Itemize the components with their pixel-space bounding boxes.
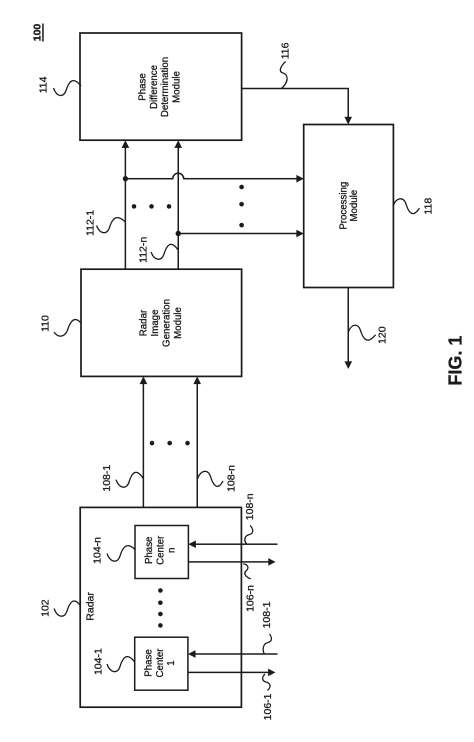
box U102 Radar bbox=[80, 507, 241, 707]
ellipsis dots between branch wires bbox=[239, 185, 244, 228]
svg-text:100: 100 bbox=[32, 24, 44, 42]
wire 120 output of processing module bbox=[345, 288, 353, 370]
lead line squiggle for 108-n bbox=[197, 471, 223, 486]
svg-text:Module: Module bbox=[349, 190, 360, 222]
svg-text:102: 102 bbox=[39, 599, 51, 617]
lead line squiggle for 112-n bbox=[151, 244, 178, 259]
lead line squiggle for 106-n bbox=[243, 564, 251, 579]
svg-text:Radar: Radar bbox=[85, 592, 97, 621]
wire 108-1 input into phase center 1 bbox=[188, 650, 278, 658]
svg-text:112-1: 112-1 bbox=[84, 210, 96, 236]
wire 112-n from radar image module to phase difference module bbox=[174, 140, 182, 269]
ellipsis dots between phase centers bbox=[158, 588, 163, 628]
ellipsis dots between 108 wires bbox=[150, 441, 190, 446]
svg-text:108-1: 108-1 bbox=[261, 601, 273, 628]
box U104-n Phase Center n bbox=[135, 526, 188, 579]
svg-text:Determination: Determination bbox=[160, 57, 171, 117]
lead line squiggle for 120 bbox=[348, 325, 375, 340]
wire 106-n output of phase center n bbox=[188, 558, 275, 566]
svg-text:Phase: Phase bbox=[144, 537, 155, 564]
lead line squiggle for 108-1 bbox=[116, 472, 143, 487]
wire 116 from phase difference module to processing module bbox=[242, 89, 352, 125]
lead line squiggle for 104-1 bbox=[107, 657, 135, 672]
svg-text:104-1: 104-1 bbox=[93, 648, 105, 675]
svg-text:104-n: 104-n bbox=[92, 537, 104, 564]
svg-text:110: 110 bbox=[40, 315, 52, 332]
wire 108-n from radar to radar image module bbox=[193, 376, 201, 507]
svg-text:106-n: 106-n bbox=[244, 585, 256, 612]
svg-text:Difference: Difference bbox=[149, 65, 160, 109]
svg-text:116: 116 bbox=[280, 42, 292, 59]
lead line squiggle for input 108-1 bbox=[263, 634, 271, 654]
lead line squiggle for 114 bbox=[54, 81, 82, 96]
svg-text:Center: Center bbox=[155, 648, 166, 678]
lead line squiggle for 104-n bbox=[107, 546, 135, 562]
junction dot on wire 112-1 bbox=[123, 176, 128, 181]
box U110 Radar Image Generation Module bbox=[81, 269, 242, 376]
ellipsis dots between 112 wires bbox=[132, 204, 172, 209]
svg-text:Module: Module bbox=[173, 307, 184, 339]
lead line squiggle for 112-1 bbox=[97, 218, 126, 233]
wire 108-n input into phase center n bbox=[188, 540, 277, 548]
svg-text:108-1: 108-1 bbox=[101, 465, 113, 492]
svg-text:FIG. 1: FIG. 1 bbox=[445, 336, 465, 386]
svg-text:Processing: Processing bbox=[338, 182, 349, 230]
svg-text:Module: Module bbox=[171, 71, 182, 103]
svg-text:108-n: 108-n bbox=[226, 465, 238, 492]
svg-text:n: n bbox=[167, 548, 178, 553]
svg-text:114: 114 bbox=[37, 76, 49, 93]
svg-text:118: 118 bbox=[422, 198, 434, 215]
wire 106-1 output of phase center 1 bbox=[188, 669, 275, 677]
lead line squiggle for 110 bbox=[54, 319, 81, 336]
junction dot on wire 112-n bbox=[176, 231, 181, 236]
lead line squiggle for 106-1 bbox=[263, 674, 270, 691]
svg-text:Center: Center bbox=[155, 535, 166, 565]
box U114 Phase Difference Determination Module bbox=[80, 33, 242, 140]
wire 112-1 from radar image module to phase difference module bbox=[122, 140, 130, 269]
svg-text:Phase: Phase bbox=[138, 73, 149, 100]
wire 108-1 from radar to radar image module bbox=[140, 376, 148, 507]
box U118 Processing Module bbox=[304, 125, 394, 288]
figure reference numeral 100 bbox=[32, 24, 44, 42]
svg-text:1: 1 bbox=[166, 660, 177, 665]
svg-text:108-n: 108-n bbox=[244, 493, 256, 520]
wire branch from 112-1 to processing module with hop over 112-n bbox=[125, 173, 303, 182]
svg-text:Phase: Phase bbox=[144, 649, 155, 676]
svg-text:Radar: Radar bbox=[139, 309, 150, 336]
svg-text:106-1: 106-1 bbox=[262, 693, 274, 720]
lead line squiggle for 116 bbox=[280, 62, 287, 89]
svg-text:120: 120 bbox=[377, 326, 389, 344]
lead line squiggle for 118 bbox=[393, 199, 420, 214]
lead line squiggle for input 108-n bbox=[245, 526, 253, 545]
svg-text:112-n: 112-n bbox=[138, 237, 150, 263]
lead line squiggle for 102 bbox=[54, 601, 81, 616]
wire branch from 112-n to processing module bbox=[178, 230, 304, 238]
svg-text:Generation: Generation bbox=[162, 299, 173, 347]
box U104-1 Phase Center 1 bbox=[135, 637, 188, 690]
svg-text:Image: Image bbox=[150, 310, 161, 337]
